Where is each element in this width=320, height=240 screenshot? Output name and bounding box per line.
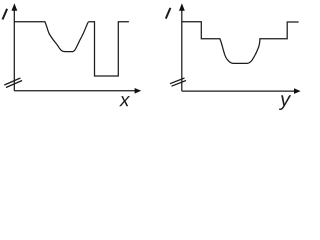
left plot I label: [3, 9, 8, 20]
left plot curve: [14, 22, 129, 76]
right plot axis break: [170, 78, 186, 86]
right plot y label: [279, 95, 291, 110]
left plot x-axis arrowhead: [135, 88, 142, 94]
right plot I label: [166, 8, 171, 19]
right plot y-axis: [181, 9, 183, 92]
left plot y-axis arrowhead: [12, 3, 18, 11]
right plot x-axis arrowhead: [294, 88, 301, 94]
left plot x-axis: [14, 90, 135, 92]
left plot x label: [119, 96, 130, 106]
right plot y-axis arrowhead: [179, 3, 185, 11]
right plot x-axis: [182, 90, 295, 92]
left plot y-axis: [13, 9, 15, 91]
left plot axis break: [4, 78, 22, 88]
right plot curve: [182, 22, 299, 64]
